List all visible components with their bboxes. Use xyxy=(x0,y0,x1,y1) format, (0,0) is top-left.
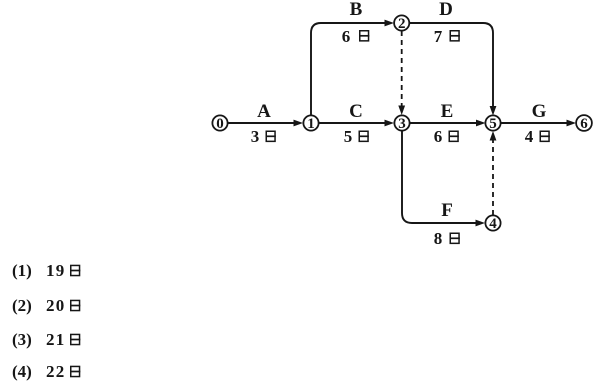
svg-text:6: 6 xyxy=(580,116,588,132)
svg-text:20: 20 xyxy=(46,296,66,315)
value label 3 days xyxy=(251,127,276,146)
svg-text:21: 21 xyxy=(46,330,66,349)
value label 8 days xyxy=(434,229,460,248)
svg-text:7: 7 xyxy=(434,27,443,46)
svg-text:6: 6 xyxy=(342,27,351,46)
wire activity F arrow from node 3 down and right to node 4 xyxy=(402,131,485,226)
wire activity B arrow from node 1 up and right to node 2 xyxy=(311,20,394,116)
svg-text:D: D xyxy=(439,0,453,20)
svg-text:(2): (2) xyxy=(12,296,32,315)
svg-text:5: 5 xyxy=(344,127,353,146)
node 6 xyxy=(576,115,592,132)
svg-text:1: 1 xyxy=(307,116,315,132)
svg-text:(3): (3) xyxy=(12,330,32,349)
answer choice 1 : 19 days xyxy=(12,261,80,280)
value label 5 days xyxy=(344,127,369,146)
wire activity D arrow from node 2 right and down to node 5 xyxy=(410,23,497,116)
svg-text:22: 22 xyxy=(46,362,66,381)
value label 4 days xyxy=(525,127,550,146)
wire activity C arrow from node 1 to node 3 xyxy=(319,120,394,127)
wire activity G arrow from node 5 to node 6 xyxy=(501,120,576,127)
node 4 xyxy=(485,215,500,232)
svg-text:5: 5 xyxy=(489,116,497,132)
svg-text:B: B xyxy=(350,0,363,20)
node 3 xyxy=(394,115,409,132)
svg-text:2: 2 xyxy=(398,16,406,32)
answer choice 4 : 22 days xyxy=(12,362,80,381)
svg-text:3: 3 xyxy=(398,116,406,132)
value label 6 days xyxy=(434,127,459,146)
answer choice 2 : 20 days xyxy=(12,296,80,315)
wire dummy activity dashed arrow from node 4 up to node 5 xyxy=(490,131,497,215)
svg-text:4: 4 xyxy=(489,216,497,232)
svg-text:4: 4 xyxy=(525,127,534,146)
svg-text:E: E xyxy=(441,101,454,122)
svg-text:G: G xyxy=(532,101,547,122)
node 0 xyxy=(212,115,227,132)
svg-text:6: 6 xyxy=(434,127,443,146)
svg-text:C: C xyxy=(349,101,363,122)
answer choice 3 : 21 days xyxy=(12,330,80,349)
value label 6 days xyxy=(342,27,370,46)
value label 7 days xyxy=(434,27,460,46)
svg-text:A: A xyxy=(257,101,271,122)
wire activity A arrow from node 0 to node 1 xyxy=(228,120,304,127)
svg-text:19: 19 xyxy=(46,261,66,280)
svg-text:(4): (4) xyxy=(12,362,32,381)
node 5 xyxy=(485,115,500,132)
svg-text:(1): (1) xyxy=(12,261,32,280)
svg-text:3: 3 xyxy=(251,127,260,146)
svg-text:0: 0 xyxy=(216,116,224,132)
wire activity E arrow from node 3 to node 5 xyxy=(410,120,486,127)
wire dummy activity dashed arrow from node 2 down to node 3 xyxy=(398,31,405,115)
svg-text:8: 8 xyxy=(434,229,443,248)
node 1 xyxy=(303,115,318,132)
node 2 xyxy=(394,15,409,32)
svg-text:F: F xyxy=(441,200,453,221)
